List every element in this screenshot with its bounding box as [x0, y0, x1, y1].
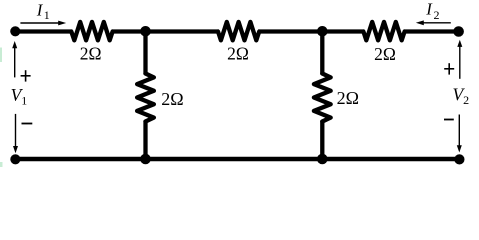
- svg-text:2Ω: 2Ω: [337, 88, 359, 108]
- wire shunt leg bottom at node A: [143, 121, 147, 160]
- wire top rail: R1 to R2 through node A: [112, 29, 220, 33]
- resistor R4 2ohm (shunt, node A): [137, 74, 154, 122]
- svg-text:2Ω: 2Ω: [80, 44, 102, 64]
- wire bottom rail: [15, 157, 459, 162]
- node: left top terminal: [10, 26, 20, 36]
- wire shunt leg top at node B: [320, 32, 324, 75]
- svg-text:1: 1: [21, 94, 27, 108]
- resistor R2 2ohm (series, middle): [218, 22, 259, 40]
- label plus (right): [444, 63, 454, 74]
- V2 minus-side reference arrow (down): [458, 115, 460, 149]
- resistor R1 2ohm (series, left): [71, 22, 112, 40]
- node A (top junction): [140, 26, 151, 37]
- wire shunt leg bottom at node B: [320, 121, 324, 160]
- wire top rail: left terminal to R1: [15, 29, 72, 33]
- label minus (right): [444, 119, 454, 121]
- current I1 arrow: [20, 22, 59, 24]
- wire top rail: R2 to R3 through node B: [258, 29, 365, 33]
- svg-text:2Ω: 2Ω: [227, 44, 249, 64]
- svg-text:2Ω: 2Ω: [161, 89, 183, 109]
- resistor R5 2ohm (shunt, node B): [314, 74, 331, 122]
- V1 plus-side reference arrow (up): [14, 46, 16, 78]
- screenshot artifact: pale green sliver left edge: [0, 48, 2, 63]
- node A (bottom junction): [140, 154, 151, 165]
- svg-text:2: 2: [434, 8, 440, 22]
- resistor R3 2ohm (series, right): [363, 22, 404, 40]
- V2 plus-side reference arrow (up): [459, 44, 461, 79]
- label minus (left): [22, 123, 33, 125]
- wire shunt leg top at node A: [143, 32, 147, 75]
- node B (top junction): [317, 26, 328, 37]
- node: right bottom terminal: [454, 154, 464, 164]
- svg-text:1: 1: [44, 8, 50, 22]
- svg-text:2Ω: 2Ω: [374, 44, 396, 64]
- current I2 arrow: [423, 22, 451, 24]
- screenshot artifact: pale green corner bottom-left: [0, 162, 3, 167]
- node: left bottom terminal: [10, 154, 20, 164]
- label plus (left): [21, 70, 31, 81]
- wire top rail: R3 to right terminal: [404, 29, 459, 33]
- node B (bottom junction): [317, 154, 328, 165]
- svg-text:2: 2: [463, 93, 469, 107]
- node: right top terminal: [453, 26, 464, 37]
- V1 minus-side reference arrow (down): [15, 114, 17, 149]
